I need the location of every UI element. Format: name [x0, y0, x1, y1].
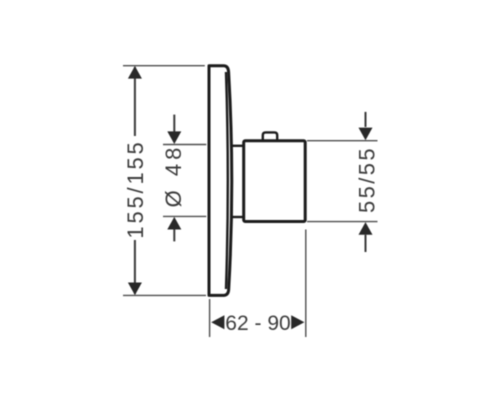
extension line 62-90 left: [209, 299, 211, 337]
62-90 left arrow (points left): [211, 315, 224, 329]
extension line 55 bottom: [307, 221, 378, 223]
extension line Ø48 bottom: [163, 215, 206, 217]
62-90 right arrow (points right): [291, 315, 304, 329]
svg-text:155/155: 155/155: [123, 139, 148, 238]
svg-text:62 - 90: 62 - 90: [225, 312, 290, 335]
extension line top (plate top, 155 dim): [123, 65, 205, 67]
svg-text:55/55: 55/55: [355, 146, 380, 213]
Ø48 upper arrow (points down): [167, 131, 181, 144]
extension line Ø48 top: [163, 144, 206, 146]
plate (escutcheon) silhouette: [209, 66, 232, 296]
55 upper arrow (points down): [359, 128, 373, 141]
extension line bottom (plate bottom, 155 dim): [123, 294, 206, 296]
arrow down (155 bottom): [128, 283, 142, 296]
Ø48 upper arrow shaft: [173, 115, 175, 132]
55 lower arrow (points up): [359, 222, 373, 235]
dimension 155/155 shaft bottom: [134, 240, 136, 294]
Ø48 lower arrow (points up): [167, 217, 181, 230]
arrow up (155 top): [128, 66, 142, 79]
dimension 155/155 shaft top: [134, 67, 136, 136]
plate inner face arc: [226, 72, 228, 289]
55 upper arrow shaft: [365, 112, 367, 127]
svg-text:Ø 48: Ø 48: [161, 144, 186, 208]
button on knob: [263, 132, 277, 141]
extension line 62-90 right: [305, 230, 307, 338]
knob (handle) body: [244, 141, 306, 222]
Ø48 lower arrow shaft: [173, 230, 175, 242]
extension line 55 top: [307, 140, 378, 142]
55 lower arrow shaft: [365, 235, 367, 252]
sleeve bottom line: [232, 216, 244, 218]
sleeve top line: [232, 145, 244, 147]
